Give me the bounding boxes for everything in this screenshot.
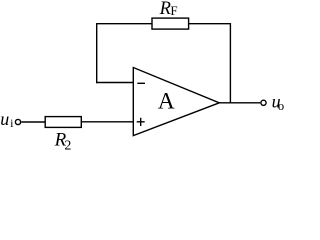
svg-text:2: 2 xyxy=(64,139,71,150)
svg-text:F: F xyxy=(170,3,177,18)
svg-text:A: A xyxy=(158,89,175,115)
wire right vertical feedback xyxy=(229,23,231,103)
svg-text:i: i xyxy=(10,116,14,130)
svg-text:o: o xyxy=(278,99,284,113)
terminal output xyxy=(261,100,266,105)
resistor R2 xyxy=(45,117,81,128)
svg-text:u: u xyxy=(0,109,9,129)
wire R2 to noninverting input xyxy=(81,121,133,123)
svg-text:R: R xyxy=(159,0,171,19)
op-amp plus sign xyxy=(137,118,145,126)
wire output xyxy=(219,102,261,104)
wire left vertical feedback xyxy=(96,23,98,83)
op-amp minus sign xyxy=(137,82,145,84)
terminal input xyxy=(15,119,20,124)
resistor RF xyxy=(152,18,189,29)
wire top feedback xyxy=(97,23,231,25)
wire inverting input xyxy=(96,82,134,84)
wire input to R2 xyxy=(21,121,45,123)
op-amp U1 triangle xyxy=(133,68,219,136)
